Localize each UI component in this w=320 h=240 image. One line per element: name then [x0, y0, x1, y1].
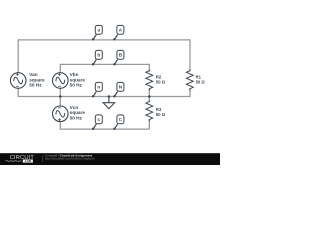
svg-text:a: a — [98, 28, 101, 33]
svg-text:LAB: LAB — [25, 159, 32, 163]
footer bar — [0, 153, 220, 165]
node flag B — [113, 50, 124, 65]
wire Vbn bottom drop — [59, 89, 61, 97]
label R1 50 Ohm — [196, 74, 206, 84]
footer separator — [41, 155, 44, 162]
voltage source V2 Vbn — [53, 73, 69, 89]
wire phase b: Vbn top to R2 top — [60, 64, 149, 72]
node flag A — [113, 25, 124, 40]
svg-text:c: c — [98, 117, 101, 122]
svg-text:50 Hz: 50 Hz — [70, 116, 83, 121]
junction ground tap — [108, 95, 111, 98]
wire phase c: Vcn bottom to R3 bottom — [60, 120, 149, 129]
footer logo wave — [6, 160, 22, 163]
node flag n — [92, 82, 102, 97]
node flag C — [113, 115, 124, 130]
svg-text:50 Ω: 50 Ω — [156, 112, 166, 117]
label R3 50 Ohm — [156, 107, 166, 117]
svg-text:Vcn: Vcn — [70, 105, 79, 110]
node flag c — [92, 115, 102, 130]
footer logo LAB box — [23, 160, 33, 163]
svg-text:50 Ω: 50 Ω — [156, 79, 166, 84]
label Van square 50 Hz — [29, 72, 45, 88]
svg-text:b: b — [97, 53, 100, 58]
wire Vcn top drop — [59, 97, 61, 107]
resistor R3 — [146, 100, 153, 121]
node flag N — [113, 82, 124, 97]
resistor R1 — [186, 70, 193, 91]
svg-text:Vbn: Vbn — [70, 72, 79, 77]
junction R2-R3 neutral — [148, 95, 151, 98]
svg-text:square: square — [70, 110, 86, 115]
ground — [103, 97, 114, 109]
label Vcn square 50 Hz — [70, 105, 86, 121]
voltage source V1 Van — [10, 73, 26, 89]
junction sources neutral — [59, 95, 62, 98]
voltage source V3 Vcn — [53, 106, 69, 122]
wire R2 bottom to R3 top — [148, 89, 150, 102]
wire phase a: Van top to R1 top — [18, 40, 190, 73]
wire neutral horizontal rail — [18, 89, 190, 97]
label R2 50 Ohm — [156, 74, 166, 84]
svg-text:Van: Van — [29, 72, 37, 77]
resistor R2 — [146, 70, 153, 91]
svg-text:50 Hz: 50 Hz — [29, 83, 42, 88]
svg-text:square: square — [29, 77, 45, 82]
svg-text:50 Hz: 50 Hz — [70, 83, 83, 88]
svg-text:square: square — [70, 77, 86, 82]
node flag a — [92, 25, 102, 40]
node flag b — [92, 50, 102, 65]
svg-text:http://circuitlab.com/c/v8r5m2: http://circuitlab.com/c/v8r5m2qfq8e2k — [45, 157, 95, 161]
svg-text:n: n — [97, 85, 100, 90]
svg-text:50 Ω: 50 Ω — [196, 79, 206, 84]
label Vbn square 50 Hz — [70, 72, 86, 88]
